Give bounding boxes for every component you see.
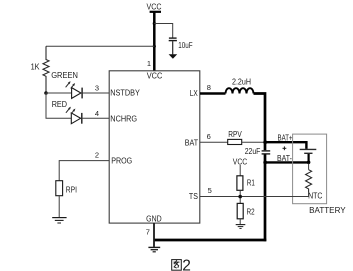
svg-text:1K: 1K	[31, 63, 41, 72]
wire VCC rail to 1K	[46, 45, 154, 47]
svg-text:1: 1	[147, 59, 151, 68]
svg-text:BATTERY: BATTERY	[309, 206, 346, 215]
svg-text:3: 3	[95, 84, 99, 93]
svg-text:RPV: RPV	[228, 130, 242, 139]
power VCC (R1 branch)	[233, 157, 248, 176]
wire R2 to ground	[239, 219, 241, 224]
wire VCC to U1 pin 1	[153, 11, 156, 71]
svg-text:VCC: VCC	[233, 157, 248, 166]
svg-text:PROG: PROG	[111, 156, 132, 165]
wire PROG pin 2	[59, 161, 109, 181]
svg-text:TS: TS	[189, 192, 198, 201]
svg-text:LX: LX	[190, 89, 199, 98]
wire LX pin 8	[200, 92, 226, 94]
svg-text:VCC: VCC	[147, 2, 162, 11]
svg-text:5: 5	[208, 186, 212, 195]
caption figure 2	[172, 257, 191, 271]
IC U1 body	[109, 71, 200, 223]
wire GND rail bottom (thick)	[154, 239, 266, 242]
battery BT1	[300, 149, 317, 163]
svg-text:GREEN: GREEN	[51, 71, 78, 80]
wire cathode D1 to pin 3	[82, 92, 109, 94]
wire BAT+ (thick)	[265, 142, 306, 149]
svg-text:2: 2	[182, 257, 191, 271]
node VCC branch junction	[153, 22, 156, 25]
resistor R1	[237, 176, 255, 191]
power VCC (top rail)	[147, 2, 162, 12]
wire VCC branch to C1	[154, 24, 172, 38]
node BAT junction	[263, 140, 267, 144]
resistor RPV	[228, 130, 243, 145]
ground (R2)	[236, 225, 246, 229]
wire RPI to ground	[58, 196, 60, 218]
svg-text:NSTDBY: NSTDBY	[110, 89, 140, 98]
svg-text:4: 4	[95, 109, 99, 118]
ground (main)	[148, 247, 160, 251]
node LED junction	[44, 91, 48, 95]
svg-text:BAT+: BAT+	[278, 134, 293, 143]
wire C2 to GND rail (thick)	[264, 154, 267, 241]
wire GND pin 7	[153, 223, 155, 247]
power arrow (C1 negative return)	[169, 54, 178, 59]
svg-text:RPI: RPI	[66, 185, 77, 194]
svg-text:BAT: BAT	[185, 139, 198, 148]
svg-text:NCHRG: NCHRG	[110, 115, 137, 124]
svg-text:22uF: 22uF	[245, 147, 261, 156]
resistor R2	[237, 203, 255, 218]
node BAT- junction	[263, 161, 267, 165]
polarity + mark	[283, 146, 287, 150]
svg-text:7: 7	[146, 228, 150, 237]
wire BAT- (thick)	[265, 161, 309, 163]
resistor 1K	[31, 46, 49, 93]
wire L1 to BAT+ node (thick)	[254, 94, 266, 151]
wire RPV to BAT+ node	[242, 141, 264, 143]
svg-text:BAT-: BAT-	[277, 154, 292, 163]
svg-text:VCC: VCC	[147, 71, 163, 80]
svg-text:8: 8	[207, 83, 211, 92]
LED D1 green	[66, 81, 83, 98]
wire cathode D2 to pin 4	[82, 117, 109, 119]
inductor L1 2.2uH	[226, 78, 254, 94]
svg-text:R1: R1	[247, 179, 255, 188]
capacitor C2 22uF	[245, 147, 271, 156]
wire R1 to R2	[239, 190, 241, 203]
resistor RPI	[56, 181, 77, 196]
svg-text:2.2uH: 2.2uH	[232, 78, 251, 87]
thermistor NTC	[306, 164, 323, 201]
ground (RPI)	[52, 218, 66, 223]
wire anode D1	[46, 92, 72, 94]
node VCC rail junction	[153, 45, 156, 48]
svg-text:GND: GND	[146, 215, 162, 224]
svg-text:6: 6	[207, 132, 211, 141]
LED D2 red	[66, 107, 82, 124]
wire TS pin 5	[200, 196, 309, 198]
svg-text:R2: R2	[247, 207, 255, 216]
svg-text:RED: RED	[52, 100, 68, 109]
svg-text:NTC: NTC	[308, 192, 322, 201]
node TS divider junction	[238, 195, 242, 199]
svg-text:2: 2	[95, 151, 99, 160]
battery pack box	[293, 134, 327, 204]
wire junction to D2	[46, 93, 71, 118]
node battery negative junction	[307, 161, 311, 165]
wire BAT pin 6	[200, 141, 228, 143]
capacitor C1 10uF	[169, 38, 177, 54]
svg-text:10uF: 10uF	[178, 41, 192, 50]
